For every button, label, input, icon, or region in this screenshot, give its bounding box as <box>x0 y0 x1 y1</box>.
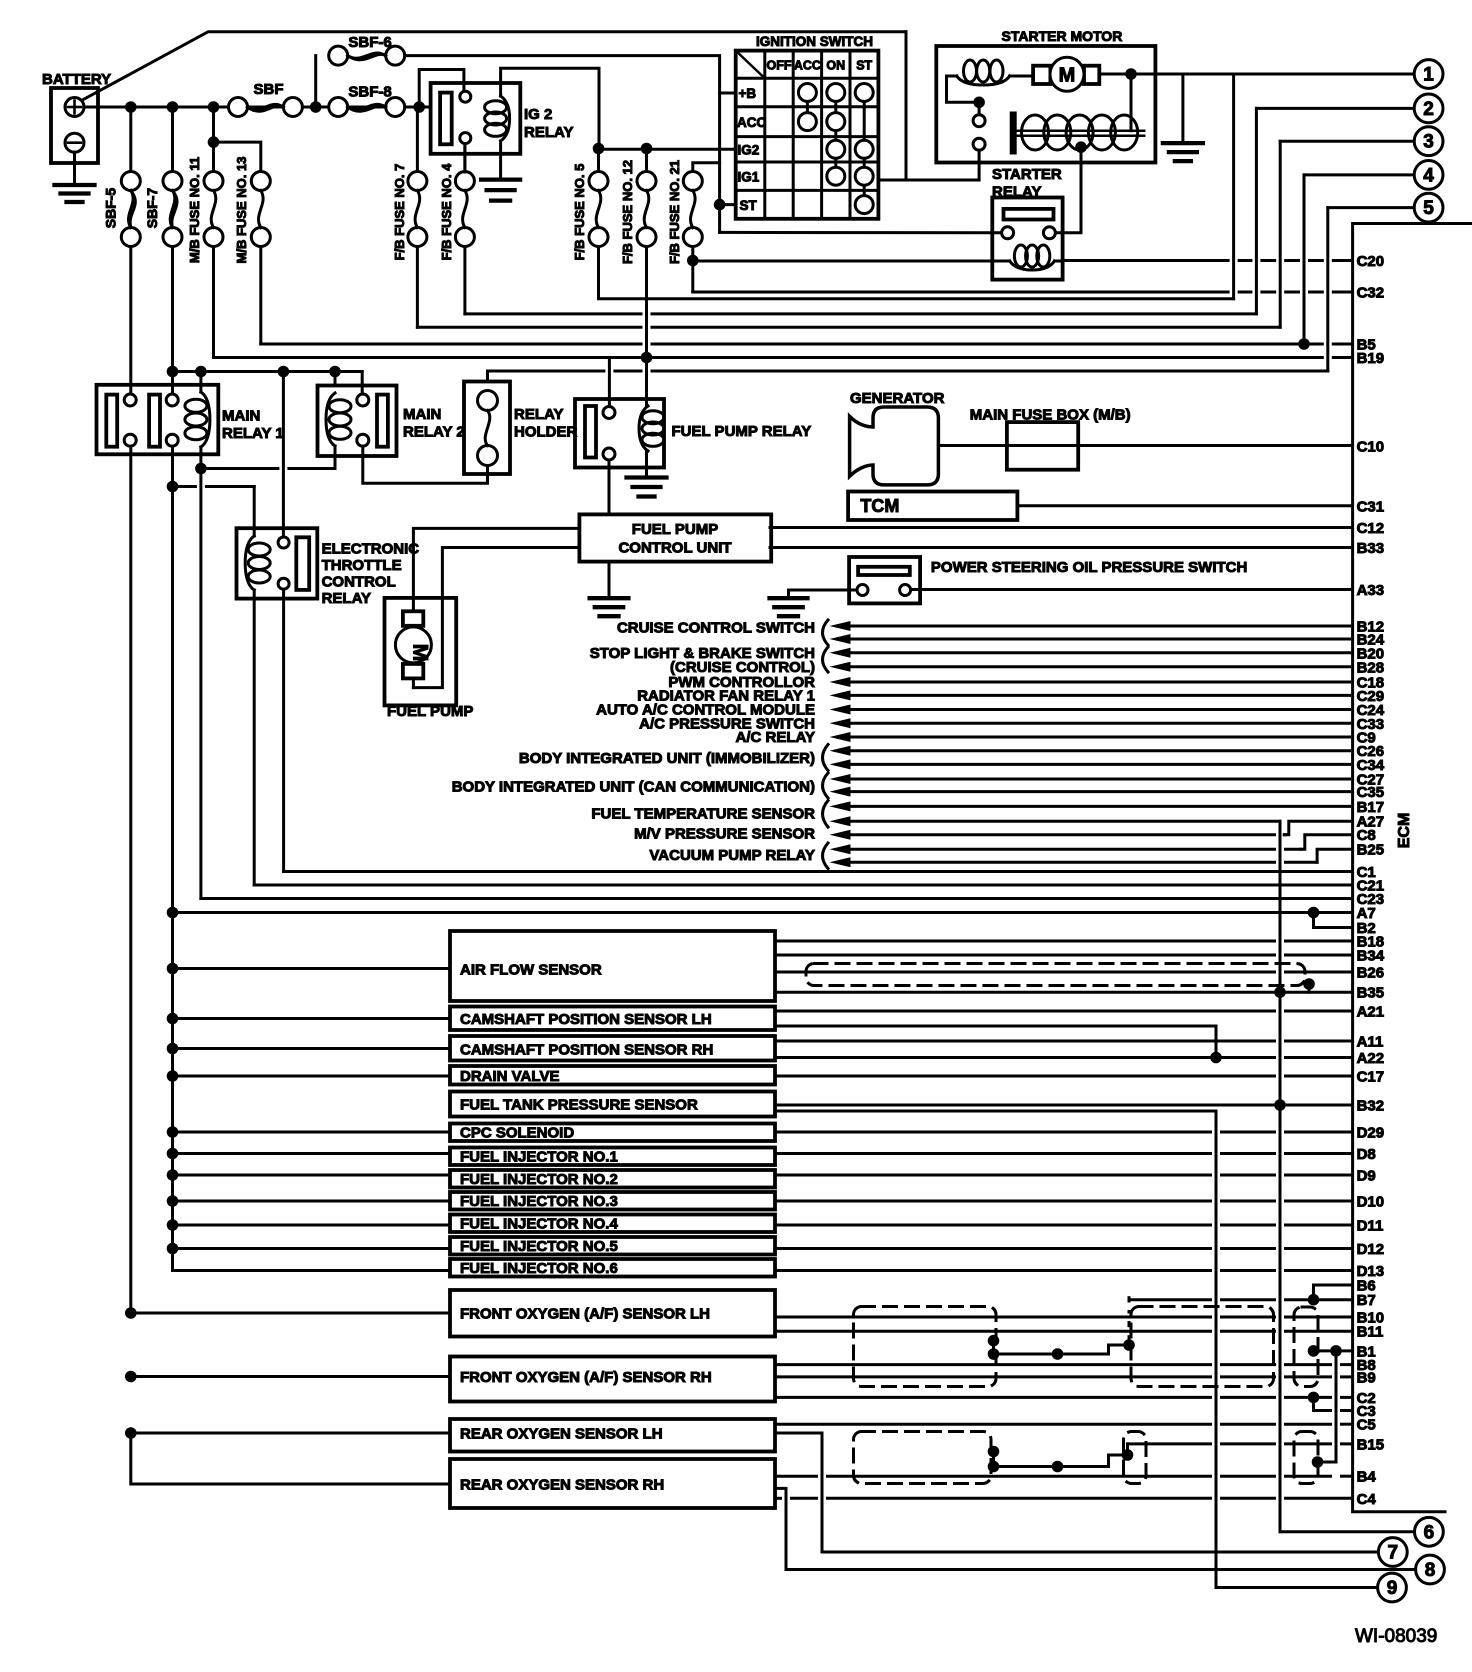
fuel injector no.3 box <box>450 1192 775 1210</box>
svg-text:BATTERY: BATTERY <box>42 71 111 88</box>
wire D9 <box>775 1174 1211 1177</box>
svg-text:B32: B32 <box>1357 1098 1385 1115</box>
connector circle 9 <box>1378 1573 1407 1602</box>
rear oxygen sensor LH box <box>450 1419 775 1452</box>
svg-text:STARTER: STARTER <box>992 166 1062 183</box>
connector circle 6 <box>1415 1517 1444 1546</box>
svg-text:CAMSHAFT POSITION SENSOR RH: CAMSHAFT POSITION SENSOR RH <box>460 1042 713 1059</box>
svg-text:FUEL INJECTOR NO.1: FUEL INJECTOR NO.1 <box>460 1149 618 1166</box>
CPC solenoid box <box>450 1124 775 1142</box>
signal arrow C9 <box>830 732 851 742</box>
shield dashed rear right <box>1294 1432 1318 1484</box>
signal arrow to B25 <box>830 849 1352 867</box>
wire line B19 <box>212 247 215 358</box>
svg-text:DRAIN VALVE: DRAIN VALVE <box>460 1068 559 1085</box>
rear oxygen sensor RH box <box>450 1459 775 1508</box>
wire line to connector 2 <box>463 247 466 314</box>
battery B1 <box>42 71 111 163</box>
svg-text:RELAY 1: RELAY 1 <box>222 425 284 442</box>
svg-text:ELECTRONIC: ELECTRONIC <box>322 541 420 558</box>
wire A7 <box>167 907 1352 919</box>
front oxygen A/F sensor RH box <box>450 1357 775 1402</box>
ground fuel pump relay coil <box>627 451 667 497</box>
svg-text:OFF: OFF <box>767 59 792 73</box>
shield dashed front left <box>854 1307 997 1387</box>
wire B15 <box>1128 1442 1211 1445</box>
svg-text:B19: B19 <box>1357 350 1385 367</box>
wire to ETC relay coil <box>167 481 255 536</box>
wire ETC relay contact feed <box>282 372 285 538</box>
svg-text:FUEL TANK PRESSURE SENSOR: FUEL TANK PRESSURE SENSOR <box>460 1097 698 1114</box>
svg-text:A11: A11 <box>1357 1034 1384 1051</box>
wire injector 1 feed <box>167 1148 450 1160</box>
shield dashed front right <box>1294 1307 1318 1387</box>
front oxygen shield drain <box>988 1298 1135 1360</box>
svg-text:4: 4 <box>1423 165 1434 186</box>
wire to starter ground <box>1131 73 1234 76</box>
wire rear oxygen RH feed <box>131 1433 450 1484</box>
svg-text:D9: D9 <box>1357 1168 1376 1185</box>
signal arrow fuel temp sensor ground <box>830 816 851 826</box>
wire B35 <box>775 986 1352 998</box>
wire D12 <box>775 1247 1211 1250</box>
wire starter relay to solenoid <box>1055 147 1081 233</box>
svg-text:RELAY: RELAY <box>322 590 371 607</box>
svg-text:TCM: TCM <box>860 496 899 516</box>
ground FPCU <box>590 562 629 617</box>
rear oxygen shield drain <box>988 1444 1134 1472</box>
connector circle 7 <box>1378 1538 1407 1567</box>
wire C2 to C3 jog <box>1312 1397 1315 1410</box>
ignition switch contacts <box>798 84 873 214</box>
wire D11 <box>775 1224 1211 1227</box>
starter solenoid plunger and spring <box>1010 74 1144 155</box>
svg-text:5: 5 <box>1423 198 1434 219</box>
wire A21 <box>775 1010 1275 1013</box>
fuse SBF-7 <box>144 107 182 247</box>
relay MAIN RELAY 2 <box>318 386 465 457</box>
svg-text:C20: C20 <box>1357 253 1385 270</box>
svg-text:MAIN: MAIN <box>222 408 260 425</box>
ground power steering switch <box>770 590 858 616</box>
fuel pump control unit <box>579 514 771 561</box>
wire +B feed from F/B fuse 21 <box>693 163 720 172</box>
signal arrow C33 <box>830 718 851 728</box>
svg-text:7: 7 <box>1388 1543 1399 1564</box>
wire line to connector 3 <box>416 247 419 327</box>
wire injector 5 feed <box>167 1243 450 1255</box>
svg-text:RELAY 2: RELAY 2 <box>403 424 465 441</box>
wire ST row to starter relay <box>714 199 1002 233</box>
wire injector 4 feed <box>167 1219 450 1231</box>
connector circle 1 <box>1414 60 1443 89</box>
svg-text:ST: ST <box>856 59 872 73</box>
svg-text:IG1: IG1 <box>738 170 760 185</box>
wire relay holder to connector 5 <box>488 370 604 373</box>
generator <box>850 390 945 485</box>
fuse SBF-6 <box>316 34 720 107</box>
wire generator to C10 <box>938 444 1351 447</box>
wire injector 6 feed <box>171 913 174 1271</box>
svg-text:C12: C12 <box>1357 520 1385 537</box>
wire camshaft LH to A22 <box>775 1026 1216 1058</box>
wire fuel tank to connector 9 vertical <box>775 1110 1216 1113</box>
wire injector 3 feed <box>167 1195 450 1207</box>
svg-text:A22: A22 <box>1357 1050 1385 1067</box>
relay holder <box>464 371 578 474</box>
wire rear oxygen RH to connector 8 <box>775 1488 1416 1569</box>
svg-text:B25: B25 <box>1357 842 1385 859</box>
wire TCM to C31 <box>1017 504 1351 507</box>
wire CPC feed <box>167 1126 450 1138</box>
svg-text:FUEL PUMP RELAY: FUEL PUMP RELAY <box>672 423 812 440</box>
wire A11 <box>775 1040 1275 1043</box>
svg-text:+B: +B <box>739 86 757 101</box>
wire rear oxygen LH feed <box>125 1427 450 1439</box>
wire B18 <box>775 940 1275 943</box>
signal arrow C34 <box>830 759 851 769</box>
wire main relay feed bus y=371.5 <box>167 366 363 394</box>
ECM pin labels <box>1357 253 1385 1508</box>
svg-text:SBF-7: SBF-7 <box>144 188 160 229</box>
svg-text:IGNITION SWITCH: IGNITION SWITCH <box>756 34 873 49</box>
wire B26 <box>775 971 1275 974</box>
wire sensor ground bus to connector 6 <box>1280 821 1414 1532</box>
wire A7 to B2 jog <box>1308 907 1352 928</box>
svg-text:FUEL TEMPERATURE SENSOR: FUEL TEMPERATURE SENSOR <box>591 806 815 823</box>
fuse M/B FUSE NO.11 <box>187 107 223 263</box>
connector circle 2 <box>1414 94 1443 123</box>
fuse M/B FUSE NO.13 <box>208 136 271 263</box>
svg-text:SBF-8: SBF-8 <box>348 84 391 101</box>
battery ground <box>55 152 95 202</box>
svg-text:A21: A21 <box>1357 1004 1385 1021</box>
svg-text:M: M <box>1059 65 1076 87</box>
svg-text:VACUUM PUMP RELAY: VACUUM PUMP RELAY <box>649 847 815 864</box>
wire B19 to fuel pump relay contact <box>608 358 611 407</box>
starter motor field coil <box>947 60 1010 102</box>
wire C17 <box>775 1075 1275 1078</box>
fuse F/B FUSE NO.7 <box>392 107 427 260</box>
signal arrow B24 <box>830 634 851 644</box>
wire D29 <box>775 1131 1211 1134</box>
power steering oil pressure switch <box>849 557 1247 603</box>
signal arrow C18 <box>830 677 851 687</box>
wire battery diagonal to top bus <box>83 32 906 100</box>
wire B34 <box>775 954 1275 957</box>
wire F/B fuse 12 to fuel pump relay coil <box>645 247 648 406</box>
svg-text:ACC: ACC <box>737 115 766 130</box>
fuse SBF <box>229 81 303 117</box>
wire air flow sensor feed <box>167 963 450 975</box>
wire front oxygen LH feed <box>125 1307 450 1319</box>
svg-text:2: 2 <box>1423 99 1434 120</box>
relay MAIN RELAY 1 <box>97 385 284 455</box>
wire line to connector 1 <box>599 247 1234 299</box>
svg-text:9: 9 <box>1387 1578 1398 1599</box>
svg-text:FUEL INJECTOR NO.5: FUEL INJECTOR NO.5 <box>460 1238 618 1255</box>
svg-text:D29: D29 <box>1357 1125 1385 1142</box>
air flow sensor box <box>450 931 775 1001</box>
svg-text:REAR OXYGEN SENSOR RH: REAR OXYGEN SENSOR RH <box>460 1477 664 1494</box>
shield dashed front middle <box>1131 1307 1274 1387</box>
svg-text:D12: D12 <box>1357 1241 1385 1258</box>
fuse F/B FUSE NO.4 <box>439 144 474 260</box>
svg-text:F/B FUSE NO. 5: F/B FUSE NO. 5 <box>572 164 587 261</box>
wire A22 <box>775 1052 1352 1064</box>
svg-text:FUEL INJECTOR NO.6: FUEL INJECTOR NO.6 <box>460 1260 618 1277</box>
fuse F/B FUSE NO.21 <box>667 160 702 264</box>
svg-text:STARTER MOTOR: STARTER MOTOR <box>1002 28 1123 44</box>
starter motor armature M <box>1010 57 1131 91</box>
wire D13 <box>775 1269 1211 1272</box>
svg-text:B15: B15 <box>1357 1436 1385 1453</box>
signal arrow to C8 <box>830 835 1352 855</box>
wire FPCU to fuel pump motor - <box>413 548 579 688</box>
svg-text:SBF-6: SBF-6 <box>348 34 391 51</box>
svg-text:FUEL INJECTOR NO.2: FUEL INJECTOR NO.2 <box>460 1171 618 1188</box>
svg-text:ST: ST <box>740 198 758 213</box>
fuse F/B FUSE NO.12 <box>620 154 656 264</box>
wire B8 <box>775 1363 1211 1366</box>
svg-text:C10: C10 <box>1357 439 1385 456</box>
svg-text:CONTROL: CONTROL <box>322 574 396 591</box>
svg-text:C5: C5 <box>1357 1417 1376 1434</box>
fuel injector no.6 box <box>450 1259 775 1277</box>
svg-text:6: 6 <box>1424 1522 1435 1543</box>
svg-text:BODY INTEGRATED UNIT (IMMOBILI: BODY INTEGRATED UNIT (IMMOBILIZER) <box>519 750 815 767</box>
wire B1 to shield <box>1308 1345 1352 1468</box>
wire B7 <box>1129 1294 1352 1306</box>
svg-text:GENERATOR: GENERATOR <box>850 390 945 407</box>
wire fuel pump relay to FPCU <box>608 460 611 514</box>
svg-text:B11: B11 <box>1357 1324 1384 1341</box>
wire camshaft LH feed <box>167 1013 450 1025</box>
svg-text:CONTROL UNIT: CONTROL UNIT <box>618 540 731 557</box>
wire B7 to B6 jog <box>1314 1285 1352 1300</box>
svg-text:CPC SOLENOID: CPC SOLENOID <box>460 1125 574 1142</box>
svg-text:M/B FUSE NO. 13: M/B FUSE NO. 13 <box>234 157 249 264</box>
svg-text:IG 2: IG 2 <box>524 106 552 123</box>
signal arrow B17 <box>830 801 851 811</box>
wire IG2 relay coil to ignition switch IG2 <box>501 68 599 148</box>
svg-text:IG2: IG2 <box>738 143 760 158</box>
signal arrow B12 <box>830 621 851 631</box>
main fuse box M/B <box>970 407 1131 470</box>
camshaft position sensor RH box <box>450 1036 775 1061</box>
wire C2 <box>775 1392 1352 1404</box>
svg-text:FUEL PUMP: FUEL PUMP <box>632 521 718 538</box>
fuse SBF-8 <box>329 84 405 117</box>
svg-text:BODY INTEGRATED UNIT (CAN COMM: BODY INTEGRATED UNIT (CAN COMMUNICATION) <box>452 779 815 796</box>
wire C23 <box>201 897 1352 900</box>
signal arrow C24 <box>830 705 851 715</box>
svg-text:F/B FUSE NO. 4: F/B FUSE NO. 4 <box>439 163 454 261</box>
svg-text:B9: B9 <box>1357 1369 1376 1386</box>
wire C1 <box>284 870 1352 873</box>
wire IG2 row feed <box>593 143 736 172</box>
svg-text:ACC: ACC <box>794 59 821 73</box>
wire FPCU to C12 <box>770 526 1352 529</box>
wire B10 <box>775 1316 1211 1319</box>
svg-text:D11: D11 <box>1357 1218 1384 1235</box>
svg-text:C17: C17 <box>1357 1069 1385 1086</box>
signal arrow C29 <box>830 690 851 700</box>
svg-text:FRONT OXYGEN (A/F) SENSOR LH: FRONT OXYGEN (A/F) SENSOR LH <box>460 1306 710 1323</box>
wire C32 <box>693 291 1228 294</box>
drain valve box <box>450 1066 775 1085</box>
svg-text:RELAY: RELAY <box>524 124 573 141</box>
wire FPCU to B33 <box>770 546 1352 549</box>
wire C20 from F/B fuse 21 <box>687 247 1352 292</box>
signal arrow B28 <box>830 662 851 672</box>
svg-text:WI-08039: WI-08039 <box>1355 1626 1437 1647</box>
junction starter motor output <box>1125 68 1137 80</box>
svg-text:REAR OXYGEN SENSOR LH: REAR OXYGEN SENSOR LH <box>460 1426 663 1443</box>
fuel injector no.1 box <box>450 1148 775 1166</box>
signal arrow to A27 <box>830 821 1352 840</box>
wire ETC relay outputs down <box>282 589 285 871</box>
wire to connector 9 <box>1216 1586 1378 1589</box>
svg-text:M: M <box>408 644 431 662</box>
wire line B5 to connector 4 <box>259 247 262 344</box>
wire C21 <box>254 884 1351 887</box>
svg-text:SBF-5: SBF-5 <box>103 188 119 229</box>
wire C5 <box>775 1423 1211 1426</box>
svg-text:B26: B26 <box>1357 965 1385 982</box>
signal arrow C27 <box>830 774 851 784</box>
wire injector 2 feed <box>167 1169 450 1181</box>
svg-text:M/V PRESSURE SENSOR: M/V PRESSURE SENSOR <box>634 826 815 843</box>
svg-text:C31: C31 <box>1357 499 1385 516</box>
fuel injector no.4 box <box>450 1215 775 1233</box>
wire main relay coils common <box>195 446 335 474</box>
svg-text:C32: C32 <box>1357 285 1385 302</box>
wire B9 <box>775 1375 1211 1378</box>
svg-text:AIR FLOW SENSOR: AIR FLOW SENSOR <box>460 962 602 979</box>
svg-text:3: 3 <box>1423 132 1434 153</box>
wire main relay 2 contact to relay holder <box>363 446 488 483</box>
ECM boundary <box>1353 224 1472 1512</box>
wire main battery bus y=107 <box>84 106 431 109</box>
svg-text:SBF: SBF <box>254 81 284 98</box>
relay STARTER RELAY <box>992 166 1063 280</box>
wire C4 <box>775 1497 781 1500</box>
svg-text:POWER STEERING OIL PRESSURE SW: POWER STEERING OIL PRESSURE SWITCH <box>931 559 1247 576</box>
wire D10 <box>775 1200 1211 1203</box>
junction dots on battery bus <box>125 101 137 113</box>
svg-text:F/B FUSE NO. 21: F/B FUSE NO. 21 <box>667 160 682 264</box>
connector circle 4 <box>1414 161 1443 190</box>
svg-text:A33: A33 <box>1357 582 1385 599</box>
svg-text:B33: B33 <box>1357 540 1385 557</box>
svg-text:M/B FUSE NO. 11: M/B FUSE NO. 11 <box>187 157 202 263</box>
wire PS switch to A33 <box>911 588 1352 591</box>
ground starter motor <box>1163 74 1203 161</box>
signal arrow B20 <box>830 648 851 658</box>
svg-text:D8: D8 <box>1357 1146 1376 1163</box>
svg-text:D10: D10 <box>1357 1194 1385 1211</box>
starter motor <box>936 28 1155 163</box>
fuel injector no.5 box <box>450 1237 775 1255</box>
fuel tank pressure sensor box <box>450 1092 775 1117</box>
fuel pump motor <box>385 598 474 720</box>
wire rear oxygen LH to connector 7 <box>775 1433 1378 1552</box>
svg-text:ECM: ECM <box>1396 813 1413 849</box>
wire SBF-7 through main relay 1 <box>171 247 174 395</box>
wire D8 <box>775 1152 1211 1155</box>
wire B32 <box>775 1099 1352 1111</box>
svg-text:B7: B7 <box>1357 1292 1376 1309</box>
wire drain valve feed <box>167 1070 450 1082</box>
signal arrow C35 <box>830 787 851 797</box>
relay FUEL PUMP RELAY <box>575 399 811 468</box>
vertical wires to connectors 1-5 <box>1234 74 1415 371</box>
svg-text:MAIN: MAIN <box>403 406 441 423</box>
connector circle 3 <box>1414 127 1443 156</box>
wire camshaft RH feed <box>167 1043 450 1055</box>
shield dashed around B26 <box>806 964 1315 993</box>
wire front oxygen RH feed <box>125 1371 450 1383</box>
svg-text:HOLDER: HOLDER <box>514 424 578 441</box>
ground IG2 relay <box>481 141 520 201</box>
shield dashed rear middle <box>1124 1432 1147 1484</box>
connector circle 5 <box>1414 193 1443 222</box>
svg-text:CRUISE CONTROL SWITCH: CRUISE CONTROL SWITCH <box>617 620 815 637</box>
shield dashed rear left <box>854 1432 992 1484</box>
svg-text:B4: B4 <box>1357 1469 1377 1486</box>
svg-text:8: 8 <box>1425 1560 1436 1581</box>
camshaft position sensor LH box <box>450 1007 775 1031</box>
ignition switch table <box>736 34 879 219</box>
svg-text:ON: ON <box>826 59 845 73</box>
front oxygen A/F sensor LH box <box>450 1290 775 1337</box>
TCM <box>848 492 1017 521</box>
wire SBF-5 through main relay 1 <box>129 247 132 395</box>
fuel injector no.2 box <box>450 1170 775 1188</box>
svg-text:FUEL INJECTOR NO.4: FUEL INJECTOR NO.4 <box>460 1216 618 1233</box>
fuse SBF-5 <box>103 107 141 247</box>
connector circle 8 <box>1416 1555 1445 1584</box>
wire battery to IG1 row <box>878 32 979 180</box>
svg-text:1: 1 <box>1423 65 1434 86</box>
relay IG2 RELAY <box>419 70 573 173</box>
svg-text:C4: C4 <box>1357 1491 1377 1508</box>
svg-text:FUEL INJECTOR NO.3: FUEL INJECTOR NO.3 <box>460 1193 618 1210</box>
starter motor solenoid contacts <box>973 97 985 181</box>
svg-text:F/B FUSE NO. 12: F/B FUSE NO. 12 <box>620 160 635 264</box>
svg-text:F/B FUSE NO. 7: F/B FUSE NO. 7 <box>392 164 407 261</box>
svg-text:RELAY: RELAY <box>514 406 563 423</box>
svg-text:THROTTLE: THROTTLE <box>322 557 402 574</box>
svg-text:A/C RELAY: A/C RELAY <box>736 729 815 746</box>
signal labels <box>452 620 828 869</box>
wire B11 <box>775 1330 1211 1333</box>
fuse F/B FUSE NO.5 <box>572 154 608 260</box>
signal arrow C26 <box>830 746 851 756</box>
svg-text:FRONT OXYGEN (A/F) SENSOR RH: FRONT OXYGEN (A/F) SENSOR RH <box>460 1369 712 1386</box>
svg-text:CAMSHAFT POSITION SENSOR LH: CAMSHAFT POSITION SENSOR LH <box>460 1011 712 1028</box>
wire B4 <box>775 1475 817 1478</box>
relay ELECTRONIC THROTTLE CONTROL RELAY <box>237 528 420 607</box>
wire FPCU to fuel pump motor + <box>413 528 579 611</box>
svg-text:B35: B35 <box>1357 985 1385 1002</box>
svg-text:B34: B34 <box>1357 948 1385 965</box>
